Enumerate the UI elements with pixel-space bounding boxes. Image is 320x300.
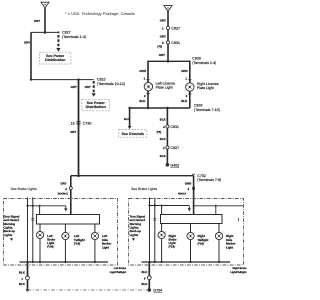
- svg-text:16: 16: [71, 121, 75, 125]
- svg-text:GRY: GRY: [60, 182, 66, 186]
- lamp Left Taillight: [62, 224, 85, 262]
- svg-text:Left Brake: Left Brake: [114, 267, 127, 270]
- wire bottom bus left: [20, 261, 109, 263]
- svg-text:C827: C827: [62, 31, 71, 35]
- svg-text:ROOM-X: ROOM-X: [58, 193, 69, 196]
- wire bottom bus right: [142, 261, 231, 263]
- svg-text:NGN-X: NGN-X: [178, 193, 186, 196]
- wire branch along top to box edge: [193, 205, 244, 215]
- lamp Right Taillight: [187, 224, 209, 262]
- wire exit right: [148, 262, 150, 290]
- pin 1: [144, 77, 150, 81]
- reference box See Grounds: [119, 130, 147, 138]
- node feed junction: [77, 78, 79, 80]
- svg-text:GRN: GRN: [185, 181, 191, 185]
- wire right license branch upper: [189, 61, 191, 83]
- connector C827 (Terminals 1-4): [58, 31, 86, 39]
- svg-text:G704: G704: [153, 289, 162, 293]
- svg-text:Plate Light: Plate Light: [197, 86, 214, 90]
- svg-text:BLK: BLK: [160, 154, 167, 158]
- arrow to See Power Distribution: [56, 35, 60, 52]
- reference box See Power Distribution: [39, 52, 71, 64]
- pin 1 / connector C827: [162, 26, 180, 30]
- lamp Right Side Marker Light: [215, 224, 236, 262]
- node C830 junction: [167, 60, 170, 63]
- connector C702 (Terminals 7-9): [192, 174, 221, 182]
- lamp Left Brake Light: [36, 224, 55, 262]
- svg-text:Light: Light: [102, 245, 109, 249]
- svg-text:Right Brake: Right Brake: [232, 267, 247, 270]
- svg-text:BLK: BLK: [142, 270, 149, 274]
- wire long GRY feed down: [78, 80, 80, 176]
- wire B down (right): [154, 206, 156, 263]
- svg-text:BLK: BLK: [124, 118, 129, 121]
- svg-text:GRN: GRN: [181, 69, 187, 73]
- node left end: [128, 107, 130, 109]
- pin 2: [144, 94, 150, 98]
- wire brake horizontal: [71, 175, 194, 177]
- pin 2 / entry connector: [65, 187, 72, 191]
- svg-text:Distribution: Distribution: [45, 58, 65, 62]
- svg-text:(*6): (*6): [157, 130, 162, 134]
- pin 6 / connector C831: [162, 41, 180, 45]
- wire left license branch upper: [147, 61, 149, 83]
- pin 2: [186, 94, 192, 98]
- svg-text:GRY: GRY: [159, 53, 165, 57]
- svg-text:(*6): (*6): [157, 44, 162, 48]
- arrow into bus bar (right): [188, 206, 191, 212]
- svg-text:GRY: GRY: [24, 41, 30, 45]
- wire left entry down: [70, 176, 72, 216]
- svg-text:Light: Light: [226, 245, 233, 249]
- wire junction2 horizontal: [31, 79, 94, 81]
- pin 5 / exit connector: [144, 276, 151, 281]
- svg-text:(Terminals 1-4): (Terminals 1-4): [62, 35, 86, 39]
- reference box See Power Distribution 2: [82, 99, 110, 111]
- svg-text:BLK: BLK: [19, 271, 26, 275]
- wire collector (right): [148, 204, 189, 206]
- svg-text:See Brake Lights: See Brake Lights: [11, 187, 37, 191]
- wire from triangle down to junction 1: [44, 8, 46, 32]
- svg-text:Distribution: Distribution: [86, 105, 106, 109]
- lamp Left Side Marker Light: [91, 224, 112, 262]
- pin 2 / connector C827: [163, 146, 179, 150]
- node mid drop: [166, 107, 168, 109]
- arrow to See Power Distribution 2: [92, 81, 96, 97]
- component box Left Brake Light/Taillight: [4, 199, 118, 266]
- component box Right Brake Light/Taillight: [129, 199, 244, 266]
- wire junction1 horizontal: [31, 31, 59, 33]
- entry stub wires with ticks: [28, 198, 33, 206]
- wire BLK mid column: [166, 108, 168, 165]
- svg-text:GRY: GRY: [160, 35, 166, 39]
- node junction 2: [30, 78, 32, 80]
- svg-text:Lights: Lights: [4, 233, 13, 237]
- svg-text:BLK: BLK: [139, 99, 146, 103]
- svg-text:C827: C827: [171, 27, 180, 31]
- label Turn Signal and Hazard Warning Lights, Back-up Lights (right): [130, 214, 146, 241]
- node ground join: [26, 289, 29, 292]
- wire B stub: [32, 206, 34, 262]
- node left bulb: [147, 107, 149, 109]
- svg-text:BLK: BLK: [142, 282, 149, 286]
- in-line connector C730 pin 16: [71, 121, 92, 125]
- label Left Brake Light/Taillight: [110, 267, 127, 274]
- svg-text:GRY: GRY: [160, 19, 166, 23]
- svg-text:(Terminals 7-9): (Terminals 7-9): [197, 178, 221, 182]
- svg-text:GRN: GRN: [139, 69, 145, 73]
- connector C833 (Terminals 7-10): [194, 103, 220, 111]
- bus bar left: [37, 215, 100, 225]
- ground G402: [166, 163, 180, 167]
- wire right license branch lower: [189, 91, 191, 108]
- node feed: [77, 174, 80, 177]
- svg-text:(*14): (*14): [198, 242, 204, 246]
- ground G704: [148, 288, 163, 292]
- svg-text:C730: C730: [83, 121, 92, 125]
- svg-text:GRY: GRY: [34, 19, 40, 23]
- wire collector: [26, 205, 65, 207]
- svg-text:See Brake Lights: See Brake Lights: [131, 187, 157, 191]
- tick near right box edge: [238, 218, 240, 221]
- svg-text:Light/Taillight: Light/Taillight: [110, 271, 126, 274]
- svg-text:C833: C833: [194, 103, 203, 107]
- svg-text:(Terminals 10-12): (Terminals 10-12): [97, 82, 125, 86]
- svg-text:BLK: BLK: [160, 137, 167, 141]
- svg-text:Lights: Lights: [130, 233, 139, 237]
- entry stub wires with ticks (right): [150, 198, 155, 206]
- connector C830 (Terminals 1-4): [192, 57, 216, 65]
- lamp Right Brake Light: [158, 224, 177, 262]
- svg-text:(*14): (*14): [74, 242, 80, 246]
- arrow into bus bar: [64, 206, 67, 212]
- svg-text:C831: C831: [170, 125, 179, 129]
- svg-text:BLK: BLK: [160, 118, 167, 122]
- svg-text:(*14): (*14): [169, 245, 175, 249]
- svg-text:* = USA: Technology Package; C: * = USA: Technology Package; Canada: [65, 11, 135, 16]
- arrowhead into See Grounds: [128, 126, 132, 129]
- connector C810 (Terminals 10-12): [97, 78, 125, 86]
- wire A down left side: [27, 206, 29, 262]
- pin 2 / entry connector: [188, 187, 195, 191]
- pin 1: [185, 77, 191, 81]
- wire exit left: [27, 262, 29, 290]
- svg-text:Plate Light: Plate Light: [156, 86, 173, 90]
- svg-text:(Terminals 1-4): (Terminals 1-4): [192, 61, 216, 65]
- label Right Brake Light/Taillight: [230, 267, 247, 274]
- wire license bottom bar: [130, 107, 190, 109]
- svg-text:See Grounds: See Grounds: [122, 132, 144, 136]
- svg-text:BLK: BLK: [19, 282, 26, 286]
- wire A down (right): [149, 206, 151, 263]
- node junction 1: [44, 31, 47, 34]
- wire right column down: [167, 11, 169, 61]
- svg-text:BLK: BLK: [181, 99, 188, 103]
- pin 4 / connector C831: [163, 125, 179, 129]
- wire drop to See Grounds: [129, 108, 131, 126]
- svg-text:G402: G402: [170, 163, 179, 167]
- svg-text:C831: C831: [171, 41, 180, 45]
- off-page connector triangle (top right): [164, 6, 172, 12]
- svg-text:Light/Taillight: Light/Taillight: [230, 271, 246, 274]
- pin 1 / exit connector: [21, 276, 29, 281]
- wire right entry down: [193, 176, 195, 216]
- svg-text:(Terminals 7-10): (Terminals 7-10): [194, 108, 220, 112]
- svg-text:C827: C827: [170, 146, 179, 150]
- svg-text:GRY: GRY: [70, 130, 76, 134]
- bus bar right: [161, 215, 223, 224]
- lamp Right License Plate Light: [186, 82, 219, 91]
- wire shared ground dashed: [28, 289, 150, 291]
- wire license top bar: [148, 60, 190, 62]
- wire left vertical to junction 2: [30, 32, 32, 79]
- label Turn Signal and Hazard Warning Lights, Back-up Lights: [4, 214, 20, 241]
- off-page connector triangle (top left): [41, 2, 49, 8]
- svg-text:GRY: GRY: [71, 85, 77, 89]
- wire left license branch lower: [147, 91, 149, 108]
- svg-text:C830: C830: [192, 57, 201, 61]
- lamp Left License Plate Light: [144, 81, 175, 90]
- svg-text:GRY: GRY: [85, 85, 91, 89]
- svg-text:(*14): (*14): [47, 245, 53, 249]
